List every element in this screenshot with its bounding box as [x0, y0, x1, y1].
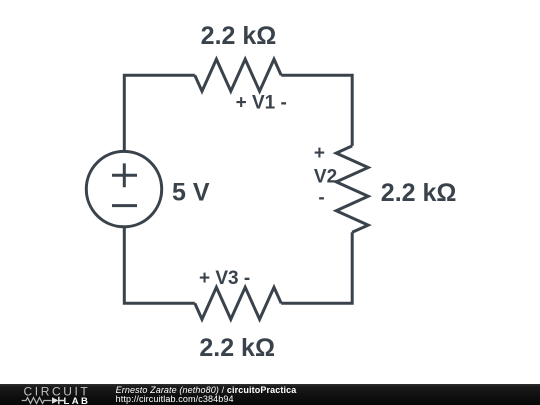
svg-text:5 V: 5 V — [172, 178, 210, 206]
plus sign inside source — [112, 163, 137, 187]
credits text — [116, 386, 297, 403]
resistor R-top (2.2k) zigzag — [195, 59, 281, 91]
logo diode — [52, 398, 59, 405]
wire: left branch from source top to top-left corner to top resistor — [124, 75, 195, 152]
wire: bottom resistor to bottom-left corner up to source bottom — [124, 226, 195, 303]
svg-text:+: + — [314, 143, 325, 164]
svg-text:2.2 kΩ: 2.2 kΩ — [201, 22, 277, 50]
svg-text:-: - — [318, 188, 324, 209]
logo resistor zigzag — [22, 398, 52, 404]
resistor R-right (2.2k) vertical zigzag — [336, 146, 368, 232]
svg-text:V2: V2 — [314, 167, 337, 188]
footer bar — [0, 384, 540, 405]
svg-text:+ V1 -: + V1 - — [236, 92, 287, 113]
wire: top resistor to top-right corner down to right resistor — [281, 75, 352, 146]
svg-text:2.2 kΩ: 2.2 kΩ — [381, 179, 457, 207]
minus sign inside source — [112, 204, 137, 207]
svg-text:2.2 kΩ: 2.2 kΩ — [199, 334, 275, 362]
voltage source V1 circle — [86, 151, 161, 226]
wire: right resistor bottom to bottom-right corner to bottom resistor — [281, 232, 352, 303]
svg-text:+ V3 -: + V3 - — [199, 268, 250, 289]
CircuitLab logo — [0, 384, 100, 405]
resistor R-bottom (2.2k) zigzag — [195, 287, 281, 319]
svg-text:LAB: LAB — [64, 396, 91, 405]
